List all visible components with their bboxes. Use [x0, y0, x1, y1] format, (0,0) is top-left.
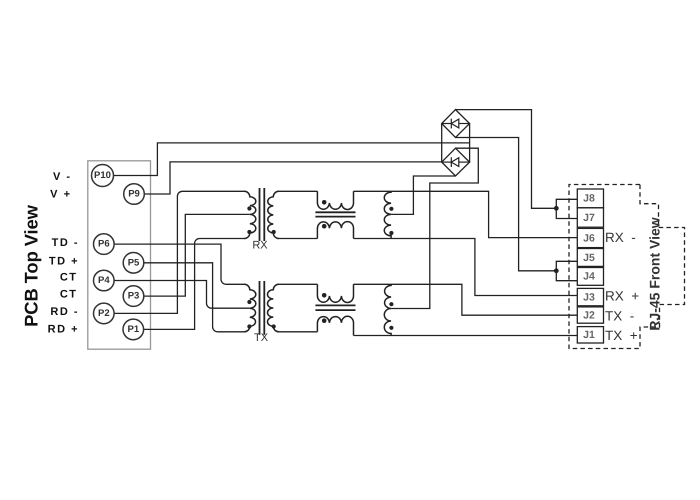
polarity dot RX choke bottom: [322, 224, 327, 229]
wire P5 (TD+) to TX primary bottom: [143, 263, 246, 332]
junction dot J8/J7: [554, 206, 559, 211]
polarity dot TX primary upper: [247, 300, 251, 304]
pin P3: [123, 286, 144, 307]
RJ-45 connector dashed outline: [569, 185, 685, 349]
RJ-45 pin J3 box: [577, 288, 603, 305]
svg-text:CT: CT: [60, 289, 78, 301]
svg-text:P2: P2: [98, 308, 110, 319]
svg-text:J6: J6: [583, 232, 595, 244]
autotransformer RX winding: [384, 191, 391, 238]
svg-text:J8: J8: [583, 193, 595, 205]
wire RX secondary top to choke: [277, 190, 317, 192]
choke RX bottom winding: [317, 222, 353, 239]
transformer RX secondary winding: [268, 191, 279, 238]
svg-text:J5: J5: [583, 252, 595, 264]
wire RX choke bottom output to J3 (RX+): [354, 239, 578, 296]
RJ-45 pin J1 box: [577, 327, 603, 343]
PCB pin header outline: [88, 161, 151, 349]
TVS diode D1 diamond: [442, 110, 470, 138]
transformer RX primary winding: [244, 191, 256, 238]
RJ-45 pin J7 box: [577, 208, 603, 227]
transformer TX core: [260, 281, 265, 335]
wire RX secondary bottom to choke: [277, 238, 317, 240]
pin P5: [123, 252, 144, 273]
junction dot J5/J4: [554, 268, 559, 273]
svg-text:RD -: RD -: [50, 306, 79, 318]
RJ-45 pin J8 box: [577, 189, 603, 208]
choke TX core: [315, 305, 355, 310]
svg-text:J7: J7: [583, 212, 595, 224]
pin P10: [92, 165, 114, 187]
diode D2 symbol: [443, 157, 469, 167]
svg-text:RX +: RX +: [605, 289, 639, 304]
autotransformer TX winding: [384, 284, 391, 335]
svg-text:P6: P6: [98, 239, 110, 250]
polarity dot TX secondary: [272, 324, 276, 328]
svg-text:J1: J1: [583, 329, 595, 341]
svg-text:P10: P10: [94, 170, 111, 181]
svg-text:RD +: RD +: [48, 324, 79, 336]
wire RX choke top output to J6 (RX-): [354, 191, 578, 237]
polarity dot TX choke bottom: [322, 318, 327, 323]
svg-text:P5: P5: [128, 257, 140, 268]
svg-text:TD +: TD +: [49, 256, 79, 268]
wire P6 (TD-) to TX primary top: [114, 244, 246, 284]
wire P4 (CT) to TX primary center tap: [114, 281, 250, 309]
svg-text:P3: P3: [128, 291, 140, 302]
diode D1 symbol: [443, 119, 469, 129]
wire P2 (RD-) to RX primary top: [114, 191, 246, 313]
wire TX choke top output to J2 (TX-): [354, 284, 578, 315]
transformer TX secondary winding: [267, 284, 278, 332]
tie bracket J5-J4: [556, 261, 577, 280]
polarity dot TX autotransformer upper: [389, 302, 393, 306]
svg-text:TX +: TX +: [605, 328, 638, 343]
pin P4: [94, 270, 115, 291]
wire P1 (RD+) to RX primary bottom: [143, 239, 246, 330]
choke RX top winding: [317, 191, 353, 209]
wire TX secondary top to choke: [277, 283, 317, 285]
wire P3 (CT) to RX primary center tap: [143, 214, 250, 296]
polarity dot TX choke top: [322, 293, 327, 298]
svg-text:RX: RX: [252, 239, 268, 251]
svg-text:CT: CT: [60, 272, 78, 284]
svg-text:J3: J3: [583, 291, 595, 303]
polarity dot RX primary upper: [247, 206, 251, 210]
svg-text:P1: P1: [127, 324, 139, 335]
pin P9: [124, 184, 145, 205]
wire diode stack right rail: [469, 124, 471, 163]
RJ-45 pin J5 box: [577, 249, 603, 267]
RJ-45 pin J4 box: [577, 268, 603, 286]
polarity dot RX primary lower: [247, 230, 251, 234]
wire P10 (V-) to diode stack right rail: [113, 143, 469, 176]
polarity dot RX choke top: [322, 200, 327, 205]
choke RX core: [315, 212, 355, 216]
wire RX autotransformer center tap to diode D2 bottom vertex: [391, 176, 455, 214]
RJ-45 pin J6 box: [577, 228, 603, 247]
transformer TX primary winding: [244, 284, 255, 332]
wire P9 (V+) to diode D2 left vertex: [144, 162, 441, 194]
svg-text:J4: J4: [583, 271, 595, 283]
wire diode stack left rail: [441, 124, 443, 163]
transformer RX core: [260, 188, 265, 241]
svg-text:V +: V +: [50, 188, 71, 200]
choke TX top winding: [317, 284, 353, 302]
wire diode D1 top vertex to J8/J7 junction: [456, 110, 557, 209]
choke TX bottom winding: [317, 316, 353, 335]
svg-text:P4: P4: [98, 275, 110, 286]
svg-text:RX -: RX -: [605, 230, 636, 245]
wire TX secondary bottom to choke: [277, 331, 317, 333]
wire TX choke bottom output to J1 (TX+): [354, 335, 578, 337]
TVS diode D2 diamond: [442, 148, 470, 176]
svg-text:PCB Top View: PCB Top View: [21, 204, 42, 327]
polarity dot RX autotransformer upper: [389, 207, 393, 211]
svg-text:P9: P9: [128, 189, 140, 200]
svg-text:V -: V -: [53, 171, 72, 183]
pin P1: [123, 319, 144, 340]
svg-text:J2: J2: [583, 309, 595, 321]
svg-text:TX: TX: [254, 332, 269, 344]
svg-text:TD -: TD -: [52, 237, 79, 249]
polarity dot RX autotransformer lower: [389, 231, 393, 235]
polarity dot RX secondary: [272, 230, 276, 234]
polarity dot TX autotransformer lower: [389, 326, 393, 330]
wire diode D2 top vertex to TX autotransformer center tap: [391, 148, 478, 308]
polarity dot TX primary lower: [247, 324, 251, 328]
pin P2: [94, 303, 115, 324]
tie bracket J8-J7: [556, 199, 577, 218]
wire diode D1 bottom vertex to J5/J4 junction: [456, 138, 557, 271]
svg-text:RJ-45 Front View: RJ-45 Front View: [646, 217, 662, 330]
RJ-45 pin J2 box: [577, 307, 603, 323]
svg-text:TX -: TX -: [605, 308, 634, 323]
pin P6: [94, 234, 115, 255]
